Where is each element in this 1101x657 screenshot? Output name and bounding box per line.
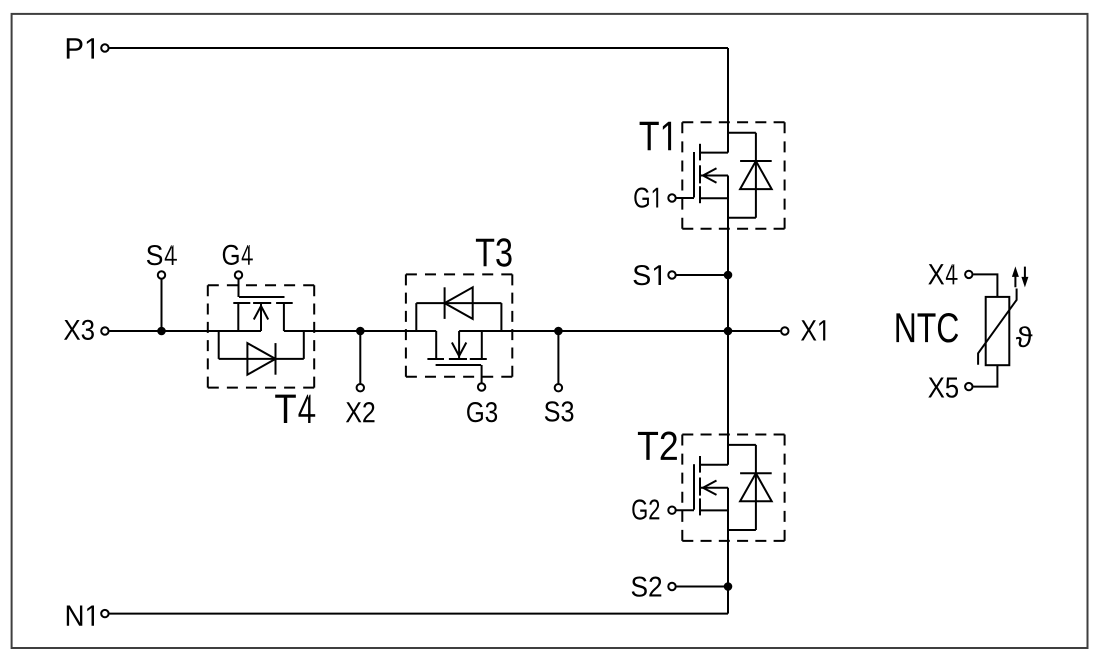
junction dot X1 node [724,327,733,336]
terminal circle S4 [158,271,165,278]
terminal circle X4 [965,271,972,278]
wire N1 horizontal [109,613,728,615]
terminal circle S3 [555,384,562,391]
terminal label S2 [632,577,662,597]
junction dot S4/X3 node [157,327,166,336]
wire T4 to T3 [313,330,407,332]
down arrow head [1021,277,1028,288]
terminal label S1 [633,265,661,285]
transistor T3 [406,274,512,390]
wire NTC to X5 [973,365,997,386]
junction dot S2 node [724,582,733,591]
transistor label T3 [476,238,512,266]
wire T3 to X1 node [511,330,728,332]
wire P1 horizontal [109,47,728,49]
bidirectional arrow shafts [1015,267,1025,288]
thermistor label NTC [896,313,958,342]
transistor T4 [208,271,314,387]
junction dot X2 node [356,327,365,336]
wire S1 [676,274,728,276]
wire X4 to NTC [973,274,997,297]
theta symbol on NTC [1016,326,1033,347]
terminal label X5 [928,377,958,397]
terminal label S4 [147,245,177,265]
wire S4 stub [161,279,163,331]
wire T2 to N1 level [727,540,729,614]
terminal circle P1 [101,44,108,51]
junction dot S1 node [724,271,733,280]
NTC body rect [986,297,1010,365]
terminal label G4 [223,245,253,265]
terminal label G2 [632,499,659,519]
wire T1 to T2 [727,228,729,435]
wire S3 stub [557,331,559,383]
terminal circle X2 [357,384,364,391]
terminal label X4 [928,264,957,284]
transistor label T2 [638,432,677,460]
terminal circle N1 [101,610,108,617]
terminal circle X5 [965,383,972,390]
wire P1 down to T1 [727,48,729,123]
up arrow head [1012,266,1019,277]
terminal label G1 [634,188,658,208]
wire X3 to T4 [109,330,209,332]
terminal label X2 [346,402,375,422]
wire X2 stub [359,331,361,383]
terminal label S3 [545,401,574,421]
wire X1 node to X1 terminal [728,330,780,332]
wire S2 [676,586,728,588]
transistor T1 [668,122,784,228]
terminal label G3 [467,402,497,422]
transistor T2 [668,435,784,541]
NTC diagonal stroke [978,289,1017,365]
transistor label T4 [275,395,315,423]
terminal label X3 [64,320,94,340]
transistor label T1 [640,122,671,150]
NTC thermistor [965,267,1025,391]
terminal label X1 [801,320,825,340]
terminal label P1 [67,38,94,58]
junction dot S3 node [554,327,563,336]
terminal circle S1 [668,271,675,278]
terminal circle X1 [781,327,788,334]
terminal label N1 [67,605,94,625]
terminal circle X3 [101,327,108,334]
terminal circle S2 [668,583,675,590]
